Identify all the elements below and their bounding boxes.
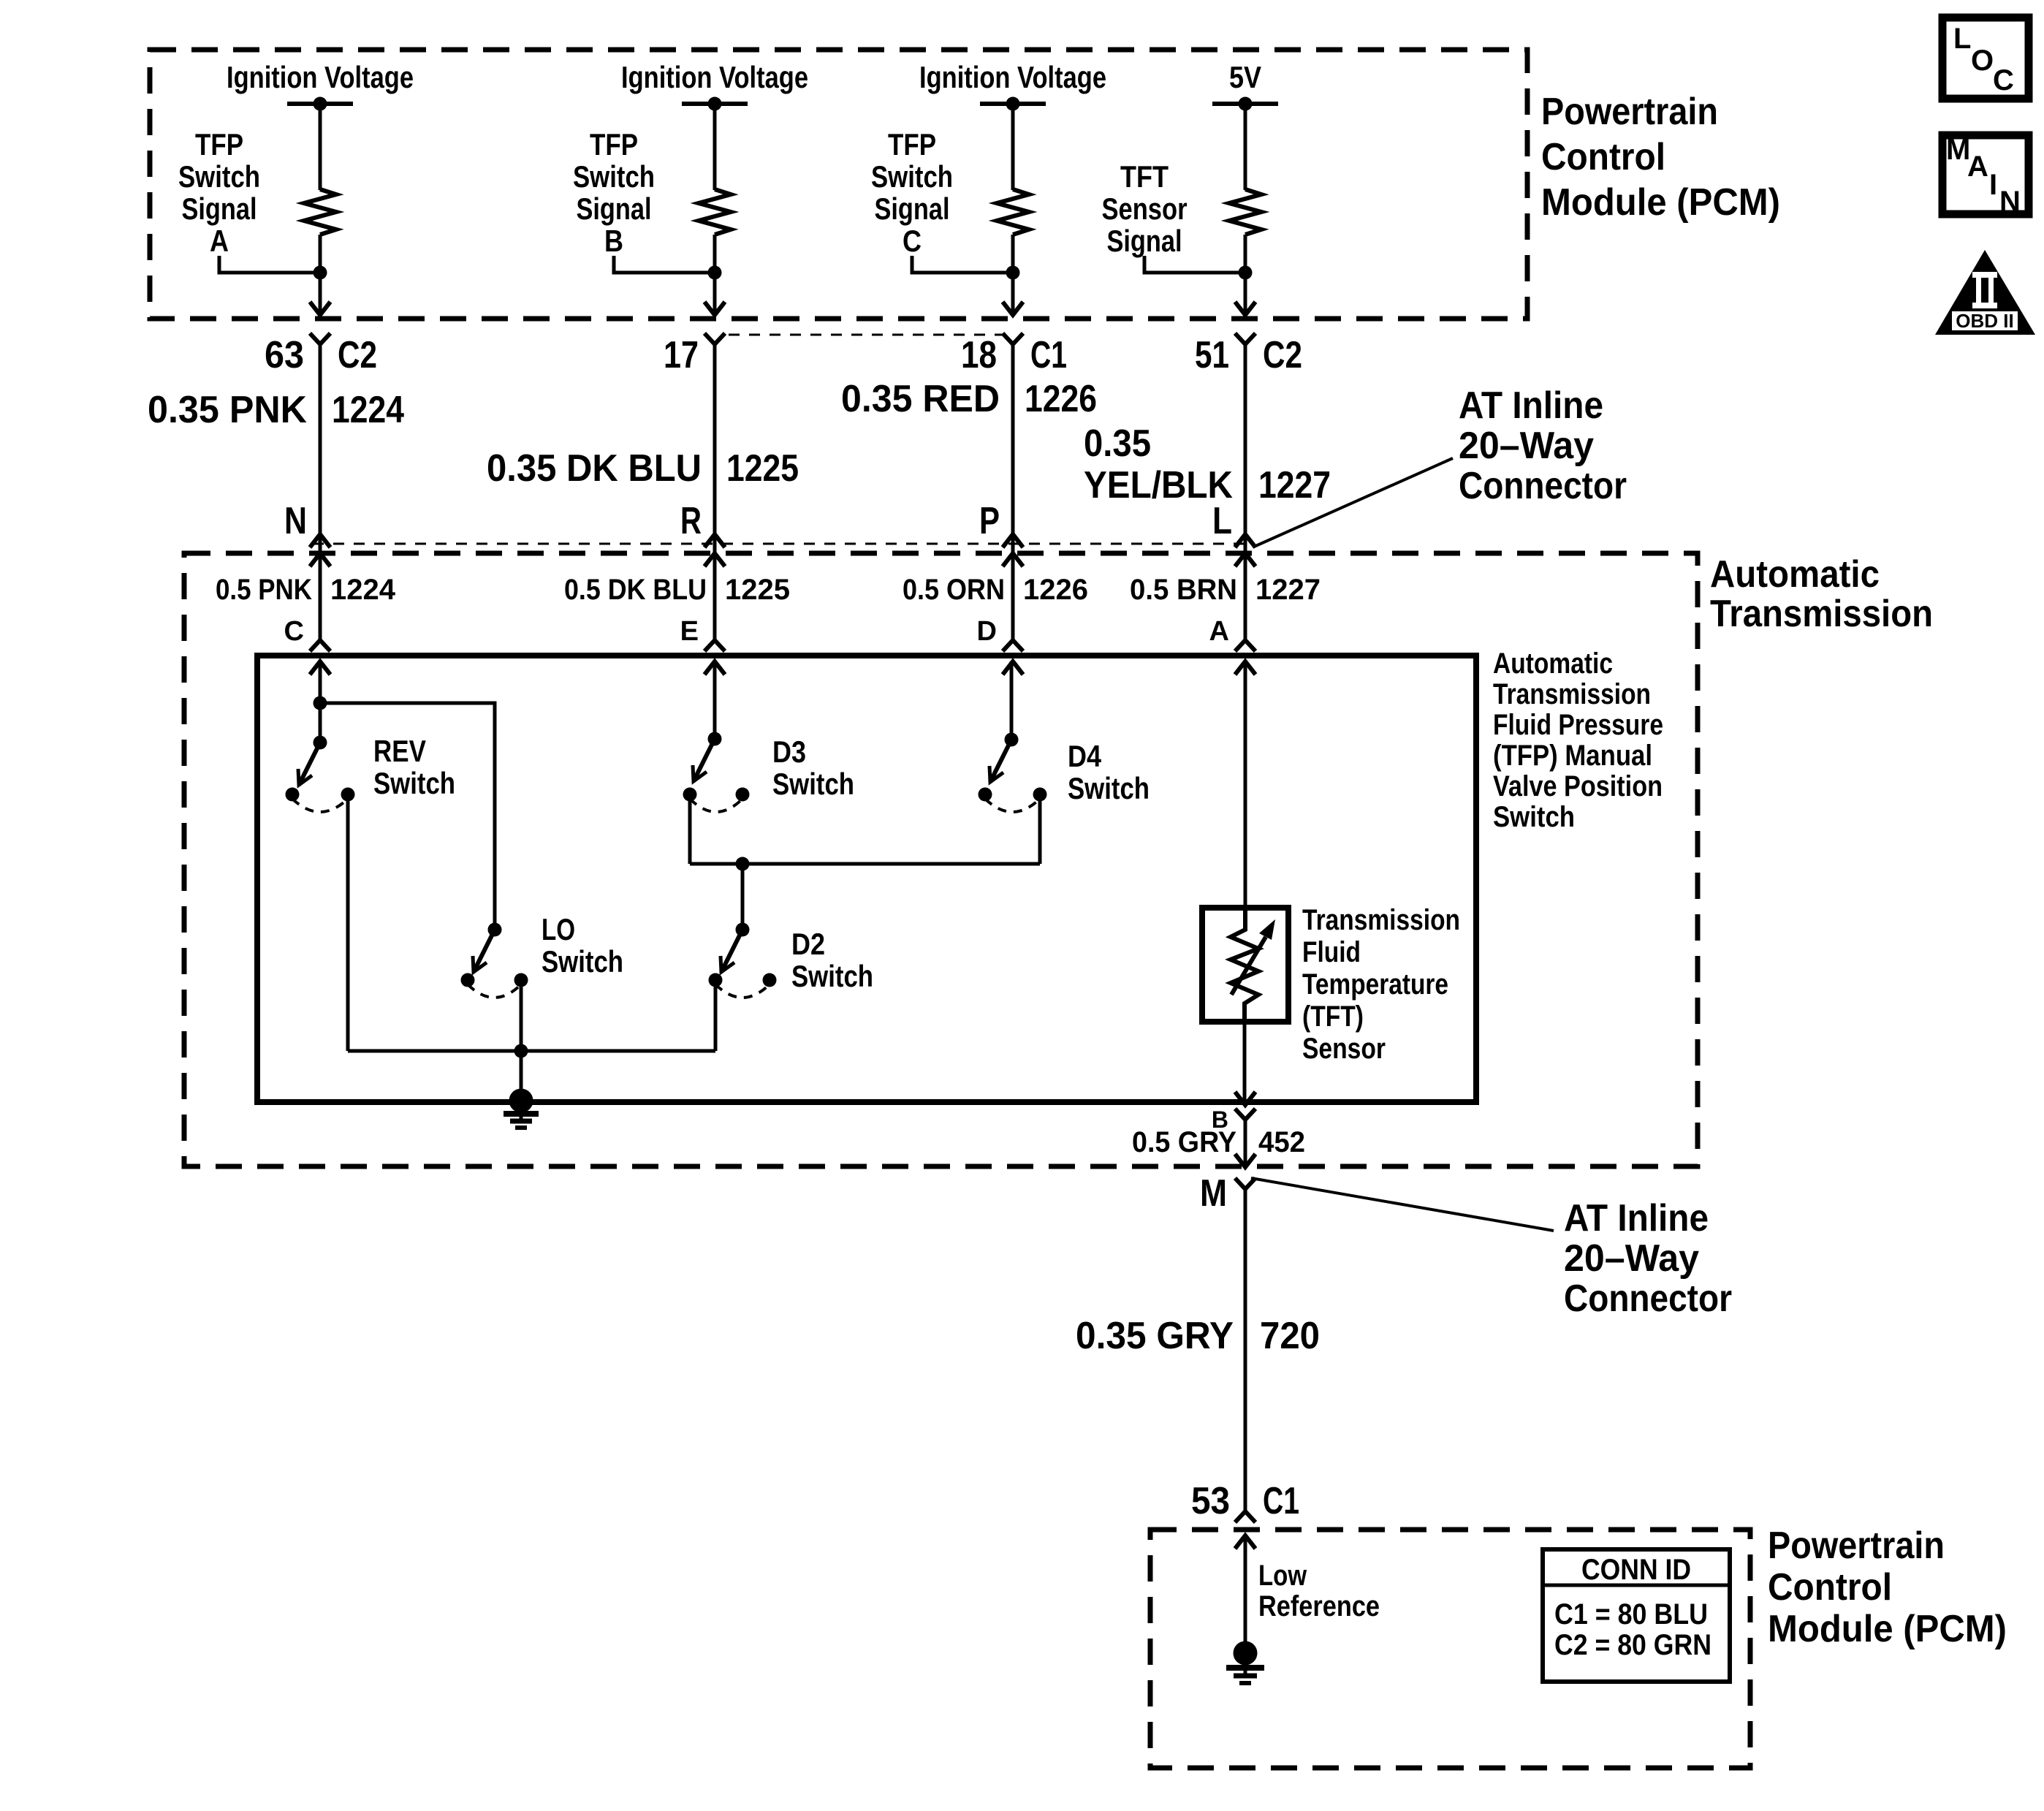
resistor: PCM pull-up 2 bbox=[699, 189, 731, 235]
svg-text:C2: C2 bbox=[1263, 334, 1302, 376]
svg-text:E: E bbox=[680, 616, 699, 647]
pin 51 C2 connector fork bbox=[1195, 333, 1302, 376]
svg-text:Switch: Switch bbox=[772, 767, 854, 801]
svg-text:L: L bbox=[1953, 23, 1971, 55]
wire: signal stub 4 bbox=[1144, 256, 1245, 273]
svg-text:Control: Control bbox=[1768, 1566, 1892, 1609]
node C: TFP switch pin bbox=[284, 616, 330, 675]
node: Ignition Voltage (branch 1) bbox=[227, 60, 414, 111]
resistor: PCM pull-up 1 bbox=[304, 189, 336, 235]
wire: D3 output to jog bus bbox=[688, 794, 692, 864]
node: signal tap junction 1 bbox=[314, 266, 327, 280]
AT inline 20-way connector (dashed outline bottom) bbox=[313, 543, 1245, 545]
svg-text:Signal: Signal bbox=[875, 191, 950, 226]
switch D4: travel arc bbox=[985, 799, 1040, 812]
svg-text:Ignition Voltage: Ignition Voltage bbox=[227, 60, 414, 94]
node R: AT inline connector pin bbox=[680, 500, 725, 566]
svg-text:R: R bbox=[680, 500, 702, 542]
label: Transmission Fluid Temperature (TFT) Sensor bbox=[1302, 904, 1460, 1065]
switch D3: pivot bbox=[708, 732, 722, 746]
label: D4 Switch bbox=[1068, 739, 1150, 805]
wire branch 1 supply drop bbox=[319, 104, 322, 190]
svg-text:Switch: Switch bbox=[373, 766, 455, 800]
node: Ignition Voltage (branch 2) bbox=[621, 60, 808, 111]
svg-text:Signal: Signal bbox=[182, 191, 257, 226]
node: REV branch junction bbox=[314, 696, 327, 710]
node: jog bus junction bbox=[736, 857, 750, 871]
wire: signal stub 2 bbox=[614, 256, 715, 273]
svg-text:Control: Control bbox=[1541, 136, 1665, 178]
switch REV: contacts bbox=[286, 788, 300, 802]
svg-text:CONN ID: CONN ID bbox=[1581, 1554, 1691, 1586]
svg-text:Powertrain: Powertrain bbox=[1768, 1525, 1945, 1567]
svg-text:Transmission: Transmission bbox=[1302, 904, 1460, 936]
ground: PCM low reference bbox=[1226, 1641, 1264, 1684]
resistor: PCM pull-up 4 bbox=[1229, 189, 1261, 235]
switch D2: travel arc bbox=[715, 984, 770, 998]
svg-text:Module (PCM): Module (PCM) bbox=[1768, 1608, 2007, 1650]
CONN ID table bbox=[1543, 1549, 1730, 1682]
node D: TFP switch pin bbox=[977, 616, 1023, 675]
svg-text:0.35 DK BLU: 0.35 DK BLU bbox=[487, 447, 702, 490]
svg-text:53: 53 bbox=[1191, 1480, 1230, 1522]
node A: TFP switch pin bbox=[1209, 616, 1255, 675]
node: ground bus junction bbox=[514, 1044, 528, 1058]
node L: AT inline connector pin bbox=[1212, 500, 1255, 566]
node: 5V (branch 4) bbox=[1212, 60, 1278, 111]
svg-text:Switch: Switch bbox=[573, 159, 655, 194]
switch D3: travel arc bbox=[690, 799, 742, 812]
wire label 0.35 DK BLU 1225 bbox=[487, 447, 799, 490]
wire 0.35 GRY 720 bbox=[1244, 1189, 1247, 1511]
svg-text:0.35 GRY: 0.35 GRY bbox=[1076, 1315, 1234, 1357]
svg-text:Automatic: Automatic bbox=[1493, 648, 1613, 680]
svg-text:C: C bbox=[903, 224, 922, 258]
svg-text:Switch: Switch bbox=[1068, 771, 1150, 805]
svg-text:M: M bbox=[1200, 1172, 1227, 1215]
svg-text:AT Inline: AT Inline bbox=[1459, 384, 1603, 427]
label: TFP Switch Signal B bbox=[573, 127, 655, 258]
pin arrow into PCM (low reference) bbox=[1235, 1535, 1255, 1549]
svg-text:TFP: TFP bbox=[888, 127, 936, 162]
wire: jog bus to D2 pivot bbox=[741, 864, 745, 930]
switch LO: contacts bbox=[461, 973, 475, 987]
svg-text:20–Way: 20–Way bbox=[1459, 425, 1594, 467]
svg-text:Switch: Switch bbox=[178, 159, 260, 194]
svg-text:YEL/BLK: YEL/BLK bbox=[1084, 464, 1233, 506]
svg-text:TFP: TFP bbox=[590, 127, 638, 162]
svg-text:TFT: TFT bbox=[1120, 159, 1169, 194]
label: Low Reference bbox=[1258, 1560, 1380, 1622]
svg-text:O: O bbox=[1971, 45, 1994, 77]
svg-text:Valve Position: Valve Position bbox=[1493, 770, 1663, 802]
wire branch 2 below resistor bbox=[713, 235, 717, 315]
wire label 0.5 PNK 1224 bbox=[216, 574, 396, 606]
svg-text:D3: D3 bbox=[772, 734, 806, 769]
svg-text:1227: 1227 bbox=[1255, 574, 1321, 606]
svg-text:N: N bbox=[1999, 186, 2021, 218]
wire branch 4 supply drop bbox=[1244, 104, 1247, 190]
PCM module box (top) bbox=[150, 50, 1527, 319]
svg-text:Ignition Voltage: Ignition Voltage bbox=[621, 60, 808, 94]
svg-text:Switch: Switch bbox=[542, 944, 623, 979]
arrow out of Automatic Transmission bbox=[1235, 1154, 1255, 1167]
svg-text:D4: D4 bbox=[1068, 739, 1102, 773]
icon: LOC box bbox=[1942, 18, 2029, 99]
label: Powertrain Control Module (PCM) top bbox=[1541, 91, 1780, 224]
node E: TFP switch pin bbox=[680, 616, 725, 675]
svg-text:Switch: Switch bbox=[871, 159, 953, 194]
svg-text:Automatic: Automatic bbox=[1710, 553, 1880, 596]
label: Automatic Transmission Fluid Pressure (TFP) Manual Valve Position Switch bbox=[1493, 648, 1663, 833]
switch LO: blade bbox=[474, 930, 495, 972]
wire branch 4 below resistor bbox=[1244, 235, 1247, 315]
wire YEL/BLK 1227 (branch 4) bbox=[1244, 344, 1247, 640]
label: AT Inline 20-Way Connector (upper) bbox=[1459, 384, 1627, 507]
pin arrow out of switch box (sensor low) bbox=[1235, 1092, 1255, 1105]
svg-text:18: 18 bbox=[961, 334, 997, 376]
svg-text:Module (PCM): Module (PCM) bbox=[1541, 181, 1780, 224]
svg-text:REV: REV bbox=[373, 734, 426, 768]
TFP manual valve position switch box bbox=[257, 656, 1476, 1102]
switch D3: contacts bbox=[683, 788, 697, 802]
wire: signal stub 1 bbox=[219, 256, 320, 273]
wire branch 1 below resistor bbox=[319, 235, 322, 315]
wire label 0.5 DK BLU 1225 bbox=[564, 574, 790, 606]
wire branch 3 below resistor bbox=[1011, 235, 1015, 315]
svg-text:Connector: Connector bbox=[1564, 1277, 1732, 1320]
svg-text:Sensor: Sensor bbox=[1102, 191, 1188, 226]
leader line to AT inline connector label bbox=[1254, 458, 1453, 547]
TFT sensor: thermistor element bbox=[1231, 908, 1275, 1022]
wire: jog bus D3/D4 bbox=[690, 862, 1040, 866]
wire: branch 3 inside box bbox=[1010, 661, 1014, 740]
svg-text:Sensor: Sensor bbox=[1302, 1033, 1386, 1065]
svg-text:D2: D2 bbox=[791, 927, 825, 961]
svg-text:Transmission: Transmission bbox=[1493, 678, 1651, 710]
wire: switch common bus bbox=[348, 1049, 715, 1053]
wire label 0.35 RED 1226 bbox=[841, 378, 1097, 420]
svg-text:Ignition Voltage: Ignition Voltage bbox=[919, 60, 1106, 94]
svg-text:0.5 BRN: 0.5 BRN bbox=[1130, 574, 1237, 606]
wire label 0.5 BRN 1227 bbox=[1130, 574, 1321, 606]
svg-text:1225: 1225 bbox=[725, 574, 790, 606]
wire label 0.5 ORN 1226 bbox=[903, 574, 1088, 606]
svg-text:452: 452 bbox=[1258, 1126, 1305, 1158]
svg-text:AT Inline: AT Inline bbox=[1564, 1197, 1709, 1239]
svg-text:1224: 1224 bbox=[330, 574, 396, 606]
svg-text:1224: 1224 bbox=[332, 389, 404, 431]
wire: branch 2 inside box bbox=[713, 661, 717, 739]
switch REV: blade bbox=[299, 743, 320, 785]
TFT sensor box bbox=[1202, 908, 1288, 1022]
wire label 0.35 PNK 1224 bbox=[148, 389, 404, 431]
label: D2 Switch bbox=[791, 927, 873, 993]
label: D3 Switch bbox=[772, 734, 854, 801]
PCM module box (bottom) bbox=[1150, 1530, 1750, 1768]
pin 63 C2 connector fork bbox=[265, 333, 377, 376]
label: TFP Switch Signal C bbox=[871, 127, 953, 258]
Automatic Transmission box bbox=[184, 553, 1698, 1166]
svg-text:Connector: Connector bbox=[1459, 465, 1627, 507]
svg-text:C2: C2 bbox=[338, 334, 377, 376]
wire 0.35 RED 1226 (branch 3) bbox=[1011, 344, 1015, 640]
svg-text:5V: 5V bbox=[1229, 60, 1261, 94]
svg-text:1226: 1226 bbox=[1023, 574, 1088, 606]
svg-text:0.5 DK BLU: 0.5 DK BLU bbox=[564, 574, 707, 606]
wire label 0.35 GRY 720 bbox=[1076, 1315, 1320, 1357]
label: AT Inline 20-Way Connector (lower) bbox=[1564, 1197, 1732, 1320]
svg-text:C: C bbox=[284, 616, 304, 647]
wire: low reference bbox=[1244, 1535, 1247, 1641]
node: signal tap junction 3 bbox=[1006, 266, 1020, 280]
svg-text:0.35 RED: 0.35 RED bbox=[841, 378, 1000, 420]
pin 17 connector fork bbox=[664, 333, 725, 376]
svg-text:Low: Low bbox=[1258, 1560, 1307, 1592]
switch REV: travel arc bbox=[292, 799, 348, 812]
svg-text:N: N bbox=[284, 500, 307, 542]
AT inline 20-way connector (dashed outline top) bbox=[729, 334, 1004, 336]
svg-text:17: 17 bbox=[664, 334, 699, 376]
svg-text:Temperature: Temperature bbox=[1302, 968, 1448, 1001]
leader line to AT inline connector label (lower) bbox=[1251, 1178, 1554, 1231]
wire 0.35 DK BLU 1225 (branch 2) bbox=[713, 344, 717, 640]
pin arrow out of PCM (branch 1) bbox=[310, 302, 330, 315]
wire: D2 output down bbox=[714, 980, 718, 1051]
wire: branch 4 inside box to sensor bbox=[1244, 661, 1247, 909]
svg-text:A: A bbox=[1209, 616, 1229, 647]
svg-text:Reference: Reference bbox=[1258, 1590, 1380, 1622]
switch D4: contacts bbox=[979, 788, 992, 802]
pin 53 C1 connector fork bbox=[1191, 1480, 1299, 1522]
label: TFT Sensor Signal bbox=[1102, 159, 1188, 258]
svg-text:0.5 GRY: 0.5 GRY bbox=[1132, 1126, 1236, 1158]
svg-text:1226: 1226 bbox=[1025, 378, 1097, 420]
svg-text:0.35: 0.35 bbox=[1084, 422, 1151, 465]
svg-text:OBD II: OBD II bbox=[1956, 310, 2013, 332]
wire label 0.35 YEL/BLK 1227 bbox=[1084, 422, 1331, 506]
svg-text:51: 51 bbox=[1195, 334, 1229, 376]
svg-text:B: B bbox=[604, 224, 623, 258]
node: signal tap junction 4 bbox=[1239, 266, 1253, 280]
wire: bus to case ground bbox=[520, 1051, 523, 1090]
svg-text:(TFT): (TFT) bbox=[1302, 1001, 1364, 1033]
ground: switch case ground bbox=[504, 1089, 539, 1128]
wire 0.5 GRY 452 bbox=[1244, 1120, 1247, 1167]
switch LO: pivot bbox=[488, 923, 502, 937]
svg-text:Transmission: Transmission bbox=[1710, 593, 1933, 635]
label: LO Switch bbox=[542, 912, 623, 979]
wire: LO output down bbox=[520, 980, 523, 1051]
label: Automatic Transmission bbox=[1710, 553, 1933, 635]
svg-text:A: A bbox=[210, 224, 229, 258]
wire 0.35 PNK 1224 (branch 1) bbox=[319, 344, 322, 640]
pin arrow out of PCM (branch 2) bbox=[704, 302, 725, 315]
svg-text:LO: LO bbox=[542, 912, 575, 946]
svg-text:C1: C1 bbox=[1263, 1480, 1299, 1522]
switch D2: pivot bbox=[736, 923, 750, 937]
node P: AT inline connector pin bbox=[979, 500, 1023, 566]
wire branch 2 supply drop bbox=[713, 104, 717, 190]
svg-text:P: P bbox=[979, 500, 1000, 542]
pin 18 C1 connector fork bbox=[961, 333, 1067, 376]
svg-text:C2 = 80 GRN: C2 = 80 GRN bbox=[1554, 1629, 1711, 1661]
label: TFP Switch Signal A bbox=[178, 127, 260, 258]
node M: AT inline connector pin bbox=[1200, 1172, 1255, 1215]
node B: sensor low pin bbox=[1212, 1106, 1255, 1133]
svg-text:Switch: Switch bbox=[791, 959, 873, 993]
switch LO: travel arc bbox=[468, 984, 521, 998]
svg-text:Signal: Signal bbox=[577, 191, 652, 226]
svg-text:0.35 PNK: 0.35 PNK bbox=[148, 389, 307, 431]
svg-text:Fluid: Fluid bbox=[1302, 936, 1361, 968]
wire: REV output down bbox=[346, 794, 350, 1051]
svg-text:Signal: Signal bbox=[1107, 224, 1182, 258]
svg-text:0.5 PNK: 0.5 PNK bbox=[216, 574, 312, 606]
svg-text:20–Way: 20–Way bbox=[1564, 1237, 1699, 1280]
wire label 0.5 GRY 452 bbox=[1132, 1126, 1305, 1158]
wire: D4 output down bbox=[1038, 794, 1042, 864]
svg-text:C1: C1 bbox=[1030, 334, 1067, 376]
svg-text:1227: 1227 bbox=[1258, 464, 1331, 506]
icon: OBD II triangle bbox=[1935, 250, 2035, 335]
svg-text:C: C bbox=[1993, 64, 2014, 96]
svg-text:TFP: TFP bbox=[195, 127, 243, 162]
switch D2: blade bbox=[721, 930, 742, 972]
label: REV Switch bbox=[373, 734, 455, 800]
pin arrow out of PCM (branch 3) bbox=[1003, 302, 1023, 315]
svg-text:720: 720 bbox=[1260, 1315, 1320, 1357]
label: Powertrain Control Module (PCM) bottom bbox=[1768, 1525, 2007, 1650]
svg-text:C1 = 80 BLU: C1 = 80 BLU bbox=[1554, 1598, 1708, 1630]
svg-text:Switch: Switch bbox=[1493, 801, 1575, 833]
resistor: PCM pull-up 3 bbox=[997, 189, 1029, 235]
svg-text:Fluid Pressure: Fluid Pressure bbox=[1493, 709, 1663, 741]
pin arrow out of PCM (branch 4) bbox=[1235, 302, 1255, 315]
switch D4: blade bbox=[990, 740, 1011, 782]
svg-text:1225: 1225 bbox=[726, 447, 799, 490]
switch REV: pivot bbox=[314, 736, 327, 750]
svg-text:(TFP) Manual: (TFP) Manual bbox=[1493, 740, 1652, 772]
wire: signal stub 3 bbox=[912, 256, 1013, 273]
node: Ignition Voltage (branch 3) bbox=[919, 60, 1106, 111]
icon: MAIN box bbox=[1942, 134, 2029, 218]
svg-text:0.5 ORN: 0.5 ORN bbox=[903, 574, 1005, 606]
node N: AT inline connector pin bbox=[284, 500, 330, 566]
svg-text:L: L bbox=[1212, 500, 1232, 542]
svg-text:I: I bbox=[1989, 169, 1997, 201]
wire: sensor output down bbox=[1243, 1020, 1247, 1105]
switch D3: blade bbox=[694, 739, 715, 781]
svg-text:A: A bbox=[1967, 151, 1988, 183]
svg-text:63: 63 bbox=[265, 334, 304, 376]
wire branch 3 supply drop bbox=[1011, 104, 1015, 190]
svg-text:Powertrain: Powertrain bbox=[1541, 91, 1718, 133]
wire: branch 1 inside box bbox=[319, 661, 322, 743]
wire: junction to LO switch feed bbox=[320, 703, 495, 930]
node: signal tap junction 2 bbox=[708, 266, 722, 280]
switch D4: pivot bbox=[1005, 733, 1019, 747]
switch D2: contacts bbox=[709, 973, 723, 987]
svg-text:D: D bbox=[977, 616, 997, 647]
